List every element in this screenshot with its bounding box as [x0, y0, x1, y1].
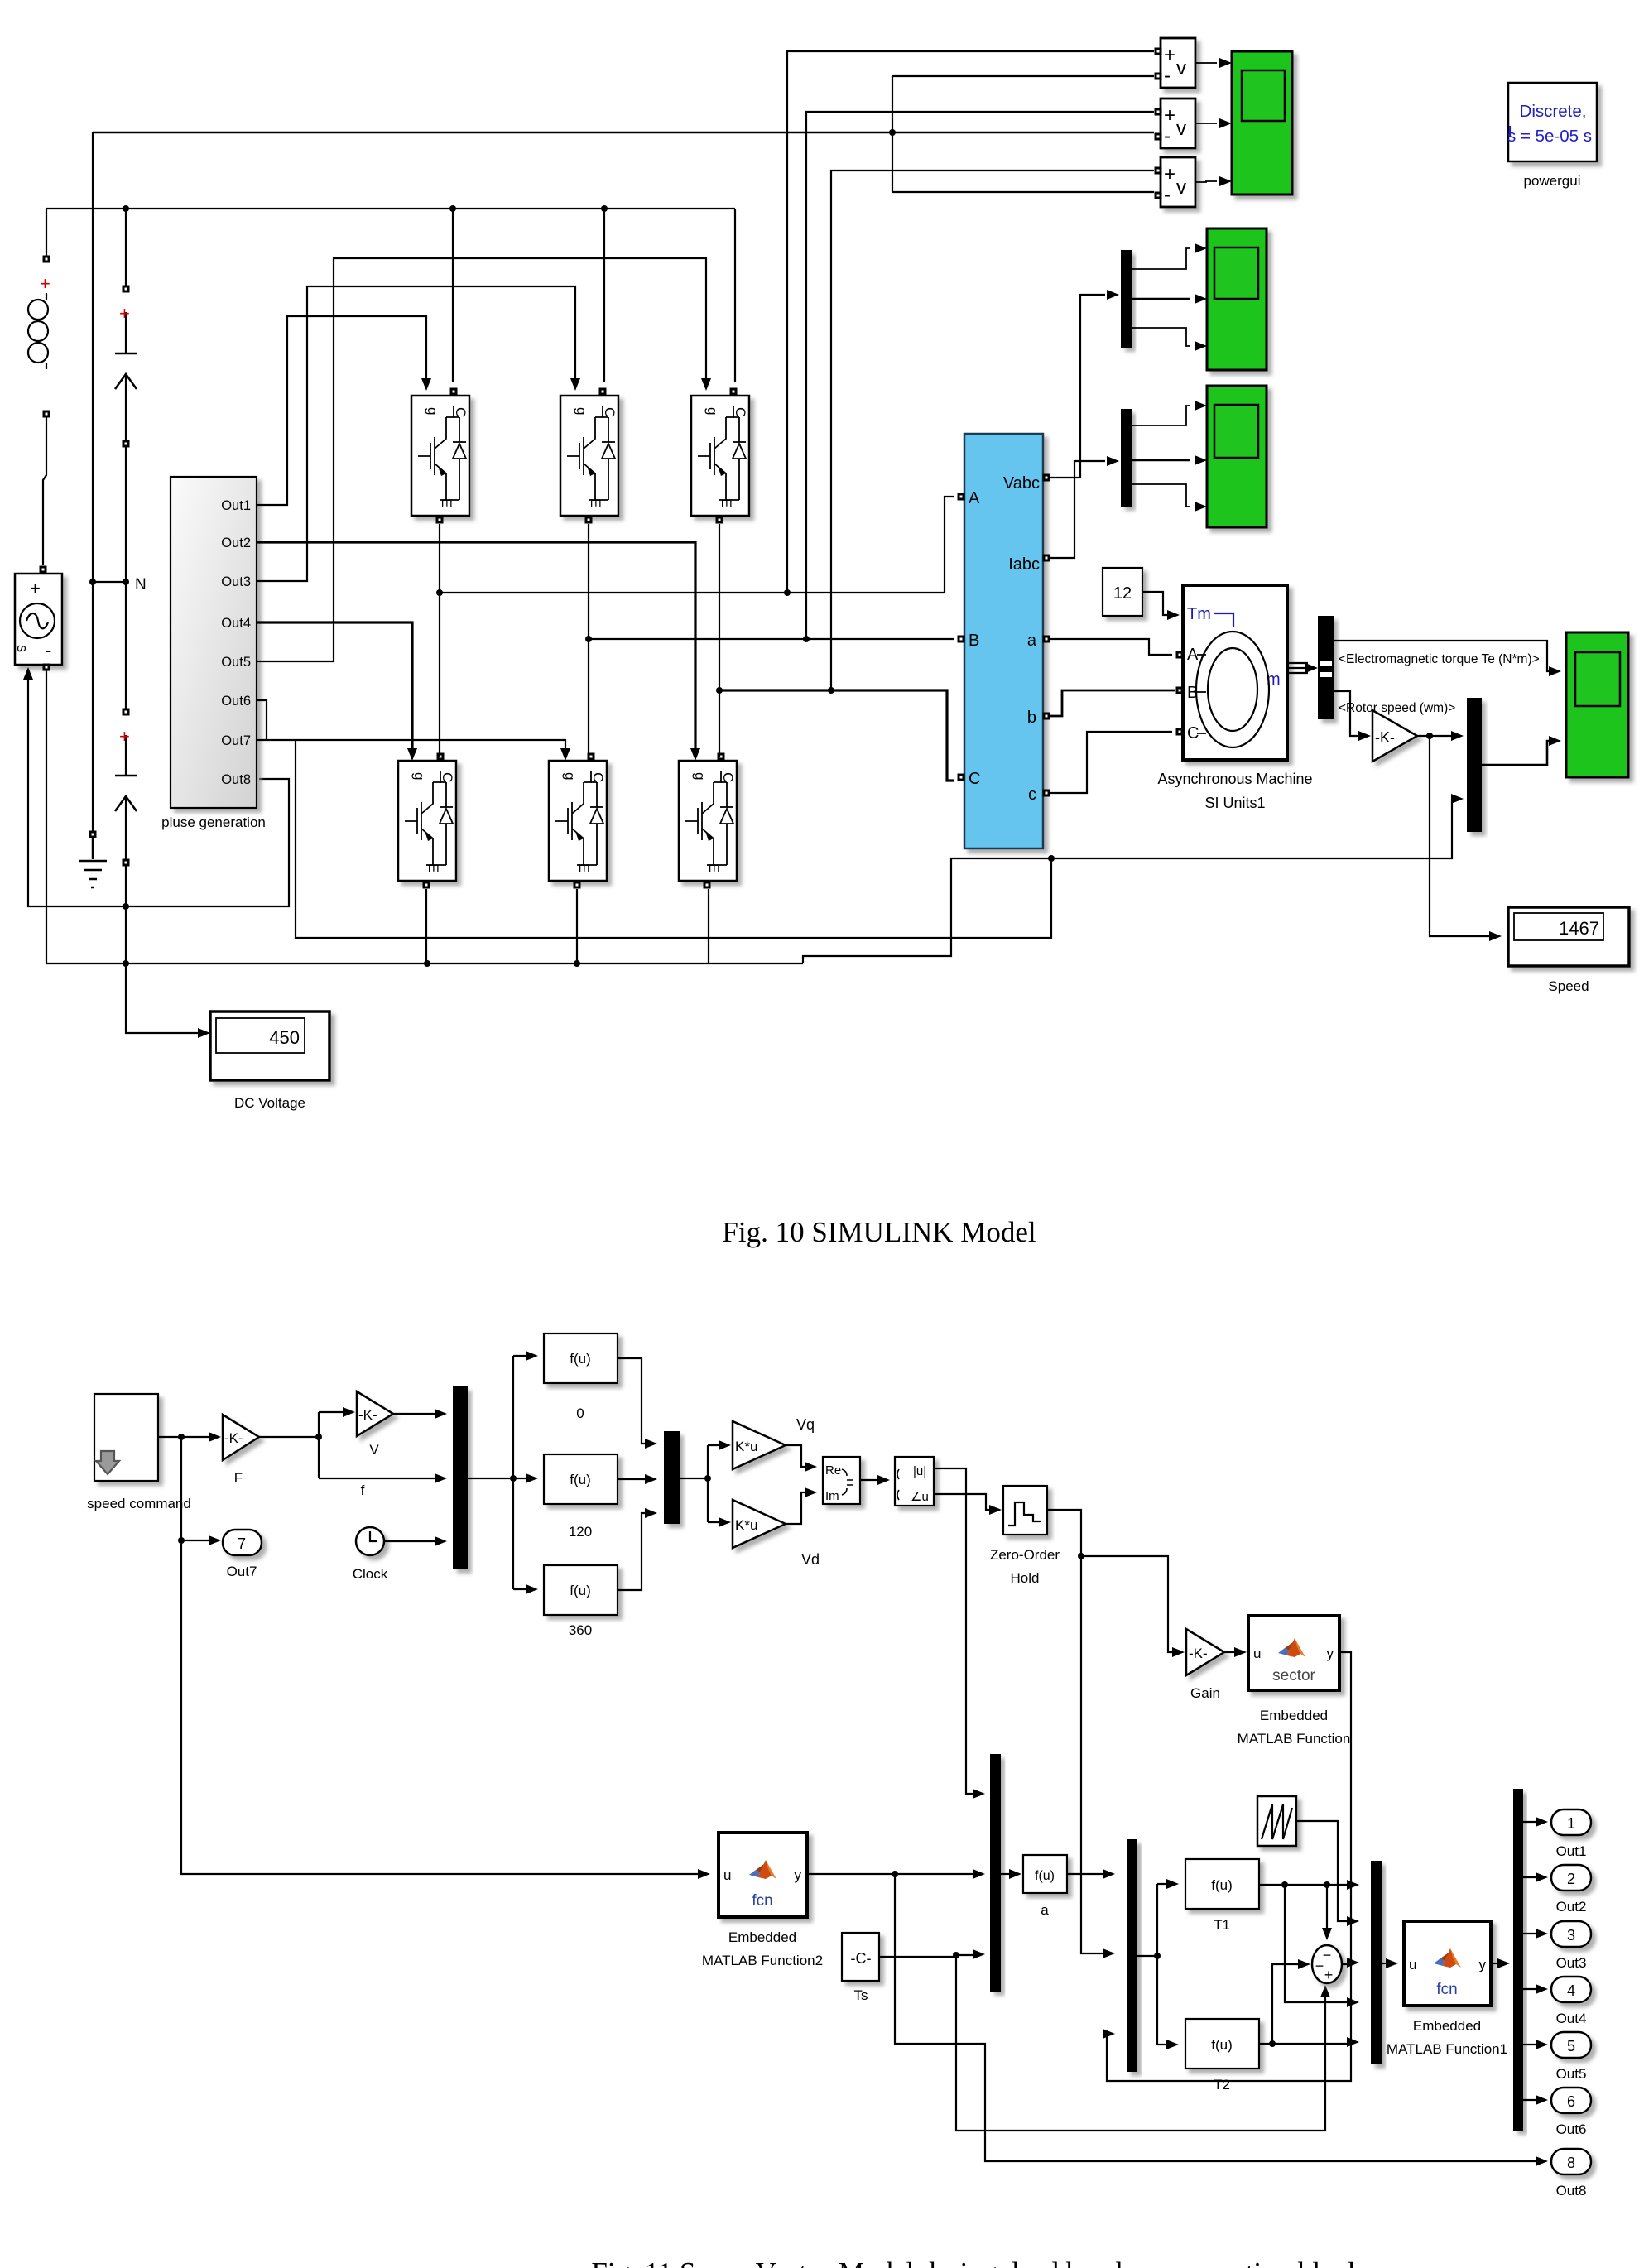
svg-text:Out7: Out7 — [221, 733, 251, 748]
svg-text:7: 7 — [238, 1535, 246, 1552]
transistor Q1 (IGBT/Diode top A) — [411, 396, 469, 516]
svg-text:f(u): f(u) — [570, 1472, 591, 1487]
svg-text:Fig. 11 Space Vector Model dur: Fig. 11 Space Vector Model during dead b… — [591, 2256, 1363, 2268]
svg-text:+: + — [119, 726, 130, 747]
ground — [79, 831, 107, 888]
svg-text:Embedded: Embedded — [1260, 1708, 1328, 1723]
scope Scope1 (phase voltages) — [1219, 51, 1292, 195]
wire: neutral vertical x=112 (ground riser) — [92, 132, 94, 834]
mux B2 — [664, 1431, 680, 1524]
phase link wires — [426, 497, 954, 963]
svg-text:12: 12 — [1113, 584, 1132, 603]
svg-text:Out5: Out5 — [221, 655, 251, 670]
outport Out7 oval — [223, 1530, 262, 1579]
powergui block — [1507, 83, 1597, 189]
svg-text:sector: sector — [1272, 1667, 1315, 1684]
svg-text:f: f — [361, 1482, 365, 1498]
gate arrowheads — [407, 378, 711, 761]
wire: top DC bus (+) y=252 — [46, 208, 735, 209]
wire: phase C to block C (bold) — [719, 690, 954, 781]
gain rpm conversion — [1372, 710, 1417, 762]
wire: IGBT6 E to bottom bus — [708, 889, 709, 963]
svg-text:v: v — [1176, 57, 1186, 79]
svg-text:Out2: Out2 — [1556, 1899, 1587, 1915]
repeating sequence sawtooth — [1257, 1796, 1296, 1846]
svg-text:<Electromagnetic torque Te (N*: <Electromagnetic torque Te (N*m)> — [1339, 652, 1540, 666]
svg-text:Fig. 10 SIMULINK Model: Fig. 10 SIMULINK Model — [722, 1216, 1036, 1248]
svg-text:1467: 1467 — [1559, 918, 1599, 939]
wire: vertical x=888 bus to IGBT3 C — [734, 209, 736, 382]
svg-text:Gain: Gain — [1190, 1685, 1220, 1701]
wire: clock to mux — [384, 1540, 437, 1542]
svg-text:T1: T1 — [1214, 1917, 1230, 1933]
svg-text:-K-: -K- — [1375, 729, 1395, 746]
node: bottom bus IGBT4 E — [424, 960, 430, 967]
svg-text:Re: Re — [825, 1463, 841, 1478]
svg-text:y: y — [1479, 1957, 1487, 1972]
wire: mux B4 out to T1 and T2 — [1137, 1884, 1169, 2045]
wire: measurement line into mux4 input 2 — [1451, 794, 1464, 804]
svg-text:Out6: Out6 — [1556, 2121, 1587, 2137]
wire: bottom DC bus (-) y=1164 — [46, 963, 803, 964]
gain Gain — [1186, 1629, 1224, 1701]
wire: phase A to block A — [440, 497, 954, 593]
three-phase VI measurement block — [958, 434, 1050, 848]
fcn block 360 — [544, 1565, 618, 1638]
svg-text:b: b — [1027, 709, 1036, 727]
svg-text:f(u): f(u) — [570, 1351, 591, 1367]
svg-text:+: + — [1324, 1967, 1334, 1983]
wire: Out5 to IGBT3 gate — [257, 258, 706, 661]
wire: mux B5 to EMF1 — [1382, 1963, 1388, 1964]
outport Out4 — [1551, 1977, 1591, 2026]
svg-text:u: u — [723, 1867, 731, 1883]
svg-text:v: v — [1176, 118, 1186, 140]
wire: speed command to gain F — [158, 1436, 211, 1438]
svg-text:+: + — [40, 273, 50, 294]
gain K*u Vq — [733, 1416, 815, 1469]
svg-text:speed command: speed command — [87, 1496, 191, 1511]
wire: angle to ZOH — [934, 1494, 992, 1510]
svg-text:c: c — [1028, 786, 1036, 804]
svg-text:Out4: Out4 — [1556, 2011, 1587, 2026]
zero-order hold — [990, 1486, 1060, 1586]
svg-text:N: N — [135, 576, 147, 593]
svg-text:u: u — [1253, 1646, 1261, 1661]
mux M2 (Vabc demux) — [1107, 248, 1190, 348]
wire: T1 out branches — [1259, 1885, 1349, 2002]
svg-text:-K-: -K- — [358, 1407, 377, 1423]
wire: cap1 internals vertical — [125, 312, 127, 444]
svg-text:Out8: Out8 — [221, 772, 251, 787]
wire: neutral to VM2- (bold) — [93, 132, 1154, 134]
svg-text:f(u): f(u) — [570, 1583, 591, 1598]
wire: Out4 to IGBT4 gate (bold) — [257, 622, 412, 751]
svg-text:+: + — [1164, 104, 1175, 127]
svg-text:6: 6 — [1567, 2093, 1575, 2110]
clock — [353, 1527, 388, 1582]
svg-text:C: C — [969, 770, 980, 788]
svg-text:Discrete,: Discrete, — [1520, 102, 1587, 121]
mux M3 (Iabc demux) — [1107, 406, 1190, 507]
inductor L — [28, 256, 50, 418]
node: bus-IGBT2 junction — [601, 205, 608, 212]
wire: f(u)360 to mux B2 — [618, 1513, 647, 1590]
outport Out8 — [1551, 2149, 1591, 2198]
wire: vertical x=730 bus to IGBT2 C — [603, 209, 605, 382]
svg-text:f(u): f(u) — [1211, 1877, 1233, 1893]
scope Scope4 — [1566, 632, 1628, 777]
wire: phase B to block B — [589, 638, 954, 640]
svg-text:−: − — [1323, 1947, 1332, 1963]
wire: IGBT4 E to bottom bus — [425, 889, 427, 963]
svg-text:Im: Im — [825, 1489, 839, 1503]
svg-text:F: F — [234, 1470, 243, 1486]
svg-text:fcn: fcn — [1436, 1981, 1457, 1998]
svg-text:360: 360 — [569, 1622, 592, 1638]
svg-text:fcn: fcn — [752, 1892, 772, 1910]
svg-text:120: 120 — [569, 1524, 592, 1540]
transistor Q2 (IGBT/Diode top B) — [560, 396, 618, 516]
wire: ZOH out, branch to Gain and down to mux B4 — [1047, 1510, 1175, 1953]
svg-text:Out4: Out4 — [221, 616, 251, 631]
capacitor C2 (lower DC link) — [115, 709, 137, 867]
wire: V out to mux — [393, 1413, 437, 1415]
display Speed — [1508, 907, 1629, 994]
wire: Out3 to IGBT2 gate — [257, 286, 575, 581]
svg-text:Out3: Out3 — [1556, 1955, 1587, 1971]
wire: a to machine A — [1050, 639, 1172, 655]
asynchronous machine block — [1157, 585, 1312, 811]
outport Out5 — [1551, 2032, 1591, 2082]
svg-text:|u|: |u| — [913, 1464, 926, 1478]
wire: inductor branch top x=56 — [46, 209, 47, 259]
svg-text:f(u): f(u) — [1035, 1869, 1055, 1883]
svg-text:1: 1 — [1567, 1815, 1575, 1832]
svg-text:SI Units1: SI Units1 — [1204, 795, 1265, 811]
svg-text:-K-: -K- — [1189, 1646, 1208, 1661]
wire: trunk down from speed command — [181, 1437, 700, 1874]
svg-text:Clock: Clock — [353, 1566, 388, 1582]
wire: Iabc to mux3 — [1046, 461, 1105, 558]
wire: cap1 to N node — [125, 444, 127, 582]
wire: vertical x=547 bus to IGBT1 C — [452, 209, 454, 382]
svg-text:y: y — [1327, 1646, 1334, 1661]
wire: mux B2 out to K*u pair — [680, 1445, 721, 1522]
svg-text:a: a — [1041, 1902, 1049, 1918]
wire: EMF2 y to mux B3, tee down to Out8 — [807, 1874, 1538, 2161]
wire: Out7 to IGBT5 gate — [257, 740, 565, 751]
svg-text:−: − — [1315, 1958, 1324, 1974]
wire: wm to gain — [1334, 691, 1359, 736]
fcn block 0 — [544, 1333, 618, 1421]
svg-text:0: 0 — [576, 1405, 584, 1421]
capacitor C1 (upper DC link) — [115, 286, 137, 448]
node: phase junction dots — [436, 589, 834, 694]
wire: phase C vertical — [719, 524, 720, 757]
svg-text:Asynchronous Machine: Asynchronous Machine — [1157, 771, 1312, 787]
node: bus-IGBT1 junction — [449, 205, 456, 212]
svg-text:+: + — [1164, 44, 1175, 66]
wire: Gain to sector — [1224, 1651, 1237, 1653]
svg-text:-: - — [46, 640, 51, 661]
sum block — [1312, 1945, 1342, 1983]
mux B6 — [1513, 1789, 1523, 2131]
wire: cap2 verticals — [125, 582, 127, 863]
node: y=1037 line at x=1270 — [1048, 855, 1055, 862]
svg-text:u: u — [1409, 1957, 1416, 1972]
mux B5 — [1371, 1861, 1382, 2064]
display DC Voltage — [198, 1011, 329, 1111]
svg-text:Vd: Vd — [801, 1551, 820, 1568]
transistor Q4 (IGBT/Diode bottom A) — [398, 761, 456, 881]
svg-text:3: 3 — [1567, 1927, 1575, 1944]
transistor Q3 (IGBT/Diode top C) — [691, 396, 749, 516]
gate wires — [257, 258, 706, 751]
svg-text:Vq: Vq — [796, 1416, 815, 1433]
wire: complex to mag-angle — [860, 1479, 880, 1481]
voltmeter VM2 — [1155, 99, 1218, 148]
wire: Out7 branch down and across y=1133 — [296, 740, 1051, 938]
wire: magnitude down to mux B3 — [934, 1468, 975, 1794]
wire: VM3+ from phase C — [831, 171, 1154, 690]
gain K*u Vd — [733, 1500, 820, 1568]
wire: sector y down-left to mux B4 input3, tee to mux B5 — [1105, 1652, 1351, 2081]
svg-text:5: 5 — [1567, 2038, 1575, 2054]
fcn block T1 — [1185, 1859, 1259, 1933]
mux M4 — [1467, 698, 1482, 832]
svg-text:MATLAB Function1: MATLAB Function1 — [1387, 2041, 1507, 2057]
svg-text:MATLAB Function2: MATLAB Function2 — [702, 1953, 823, 1968]
voltmeter VM1 — [1155, 38, 1218, 88]
svg-text:2: 2 — [1567, 1871, 1575, 1887]
fcn block T2 — [1185, 2019, 1259, 2093]
wire: Vq to Re — [786, 1445, 807, 1467]
wire: T2 out branches to sum and mux B5 — [1259, 1964, 1349, 2044]
svg-text:T2: T2 — [1214, 2077, 1230, 2093]
svg-text:Out1: Out1 — [221, 498, 251, 513]
svg-text:Vabc: Vabc — [1003, 474, 1040, 493]
node: bottom bus IGBT5 E — [574, 960, 580, 967]
wire: sum out to mux B5 — [1342, 1963, 1349, 1965]
svg-text:K*u: K*u — [735, 1439, 757, 1454]
svg-text:pluse generation: pluse generation — [161, 814, 266, 830]
svg-text:+: + — [1164, 163, 1175, 185]
outport Out3 — [1551, 1921, 1591, 1971]
gain V — [357, 1391, 393, 1458]
svg-text:8: 8 — [1567, 2155, 1575, 2171]
svg-text:Iabc: Iabc — [1008, 555, 1040, 574]
wire: bottom bus jog to measurement line — [803, 799, 1452, 963]
wire: mux4 to scope4 — [1482, 741, 1550, 765]
svg-text:s = 5e-05 s: s = 5e-05 s — [1507, 127, 1592, 146]
svg-text:B: B — [969, 632, 979, 650]
mux B4 — [1127, 1839, 1137, 2072]
embedded matlab function 1 — [1387, 1921, 1507, 2057]
svg-text:-C-: -C- — [851, 1950, 872, 1967]
svg-text:-K-: -K- — [224, 1430, 243, 1446]
mux B3 — [990, 1754, 1001, 1992]
svg-text:K*u: K*u — [735, 1517, 757, 1533]
node: neutral junction at x=1078 — [889, 129, 896, 136]
wire: cap2 bottom down to DC-voltage tap — [126, 863, 204, 1033]
wire: c to machine C — [1050, 732, 1172, 793]
wire: f(u)0 to mux B2 — [618, 1358, 647, 1444]
node: N junction dots — [89, 579, 96, 585]
svg-text:Out8: Out8 — [1556, 2183, 1587, 2198]
svg-text:MATLAB Function: MATLAB Function — [1238, 1731, 1351, 1747]
svg-text:powergui: powergui — [1524, 173, 1581, 189]
svg-text:Out6: Out6 — [221, 694, 251, 709]
wire: VM3- from neutral riser — [892, 191, 1154, 193]
wire: 12 to Tm — [1142, 592, 1168, 615]
node: bus-cap1 junction — [123, 205, 129, 212]
node: cap2-bottom-bus junction — [123, 960, 129, 967]
svg-text:Ts: Ts — [854, 1987, 868, 2003]
wire: fcn a to mux B4 — [1067, 1873, 1105, 1875]
svg-text:DC Voltage: DC Voltage — [234, 1095, 305, 1111]
svg-text:A: A — [1187, 646, 1199, 664]
svg-text:+: + — [30, 578, 41, 598]
fcn block a — [1023, 1855, 1067, 1918]
svg-text:Embedded: Embedded — [1413, 2018, 1481, 2034]
wire: EMF1 y to mux B6 — [1491, 1963, 1500, 1964]
constant -C- Ts — [842, 1933, 879, 2003]
svg-text:Out7: Out7 — [227, 1564, 257, 1579]
wire: b to machine B (bold) — [1050, 690, 1175, 716]
outport Out6 — [1551, 2088, 1591, 2137]
outport Out2 — [1551, 1865, 1591, 1915]
block complex to magnitude-angle — [895, 1457, 934, 1506]
svg-text:Zero-Order: Zero-Order — [990, 1547, 1060, 1563]
svg-text:v: v — [1176, 176, 1186, 199]
svg-text:s: s — [14, 645, 31, 652]
embedded matlab function 2 — [698, 1833, 823, 1968]
voltage sense wires — [93, 51, 1154, 690]
svg-text:B: B — [1187, 684, 1198, 702]
mux B1 — [453, 1386, 468, 1569]
embedded matlab function sector — [1238, 1616, 1351, 1747]
svg-text:Tm: Tm — [1187, 605, 1211, 623]
svg-text:450: 450 — [269, 1027, 300, 1048]
bus selector — [1318, 616, 1334, 719]
transistor Q5 (IGBT/Diode bottom B) — [549, 761, 607, 881]
wire: phase A vertical IGBT1E-IGBT4C — [439, 524, 440, 757]
svg-text:Out2: Out2 — [221, 536, 251, 550]
wire: Out1 to IGBT1 gate — [257, 316, 426, 505]
svg-text:Embedded: Embedded — [728, 1929, 796, 1945]
wire: inductor bottom to AC source + — [43, 414, 46, 565]
wire: Out2 to IGBT6 gate (bold) — [257, 542, 695, 751]
wire: capacitor branch from bus to cap1 — [125, 209, 127, 289]
wire: Te to scope4 — [1334, 641, 1550, 671]
AC voltage source — [14, 566, 62, 680]
wire: machine m to bus selector (vector) — [1287, 663, 1308, 673]
svg-text:Out5: Out5 — [1556, 2066, 1587, 2082]
wire: f(u)120 to mux B2 — [618, 1478, 647, 1480]
svg-text:4: 4 — [1567, 1982, 1575, 1999]
svg-text:Speed: Speed — [1548, 978, 1589, 994]
wire: phase B vertical — [588, 524, 589, 757]
svg-text:-: - — [1164, 125, 1171, 147]
scope Scope2 — [1195, 228, 1267, 370]
svg-text:y: y — [795, 1867, 802, 1883]
transistor Q6 (IGBT/Diode bottom C) — [679, 761, 737, 881]
wire: Vd to Im — [786, 1492, 807, 1524]
wire: Out6 stub join — [257, 700, 267, 740]
voltmeter VM3 — [1155, 157, 1218, 207]
svg-text:+: + — [119, 303, 130, 324]
wire: Ts to mux B3 input3 and down to sum + — [879, 1955, 1325, 2131]
pulse generation subsystem block — [161, 477, 266, 830]
svg-text:Out1: Out1 — [1556, 1843, 1587, 1859]
svg-text:f(u): f(u) — [1211, 2037, 1233, 2053]
wire: sawtooth to mux B5 — [1296, 1821, 1349, 1921]
svg-text:<Rotor speed (wm)>: <Rotor speed (wm)> — [1339, 701, 1455, 715]
gain F — [223, 1415, 259, 1486]
svg-text:-: - — [1164, 184, 1171, 206]
wire: N node horizontal — [93, 581, 126, 583]
wire: gain out to mux4 and down to display — [1417, 736, 1490, 936]
outport Out1 — [1551, 1809, 1591, 1859]
subsystem speed command — [87, 1394, 191, 1511]
wire: mux B3 to fcn a — [1001, 1873, 1012, 1875]
fcn block 120 — [544, 1454, 618, 1540]
wire: VM1+ from phase A — [787, 51, 1154, 593]
wire: Out8 to AC source s-input — [28, 679, 289, 906]
block Re-Im to complex — [823, 1457, 860, 1504]
node: cap2 tap crossing Out8 line — [123, 903, 129, 910]
svg-text:Hold: Hold — [1011, 1570, 1040, 1586]
svg-text:-: - — [1164, 65, 1171, 87]
svg-text:Out3: Out3 — [221, 574, 251, 589]
svg-text:V: V — [369, 1442, 379, 1458]
svg-text:a: a — [1027, 632, 1037, 650]
wire: mux B1 out to f(u) trio — [468, 1356, 528, 1589]
wire: IGBT5 E to bottom bus — [576, 889, 578, 963]
wire: AC source - to bottom bus — [46, 667, 47, 963]
wire: mux B6 to outports — [1523, 1822, 1538, 2100]
wire: VM2+ from phase B — [806, 112, 1154, 639]
constant 12 — [1103, 568, 1142, 616]
wire: F out splits to V and f — [259, 1412, 437, 1478]
scope Scope3 — [1195, 386, 1267, 527]
svg-text:A: A — [969, 489, 980, 507]
wire: tap to Out7 — [181, 1540, 211, 1541]
svg-text:∠u: ∠u — [911, 1490, 929, 1504]
wire: Vabc to mux2 — [1046, 295, 1105, 478]
wire: VM1- to neutral — [892, 76, 1154, 192]
junction dots on buses — [123, 205, 1055, 967]
